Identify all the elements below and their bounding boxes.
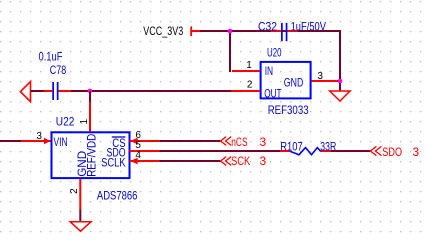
U22 pin 2 bottom	[69, 179, 81, 210]
wire SCK net	[159, 160, 220, 162]
svg-text:REF3033: REF3033	[268, 103, 309, 117]
svg-text:VIN: VIN	[54, 135, 68, 149]
svg-text:3: 3	[36, 131, 42, 142]
ground symbol right	[330, 91, 350, 101]
svg-text:C78: C78	[50, 63, 67, 77]
U20 pin 1 IN	[232, 60, 273, 78]
svg-text:4: 4	[135, 150, 141, 161]
svg-text:U22: U22	[56, 115, 75, 129]
svg-text:SCK: SCK	[231, 154, 250, 168]
svg-text:3: 3	[317, 71, 323, 82]
U20 pin 2 OUT	[230, 79, 282, 100]
svg-text:2: 2	[69, 188, 80, 194]
wire nCS net	[159, 140, 220, 142]
U22 pin 5 SDO	[107, 140, 160, 159]
U22 pin 4 SCLK	[101, 150, 159, 170]
wire VCC_3V3 top horizontal	[200, 30, 341, 32]
capacitor C32	[258, 20, 326, 41]
svg-text:VCC_3V3: VCC_3V3	[143, 24, 183, 38]
svg-text:3: 3	[260, 135, 267, 149]
port SDO	[370, 145, 419, 159]
svg-text:GND: GND	[284, 75, 304, 89]
svg-text:3: 3	[413, 145, 420, 159]
wire junction down to U22 pin 1	[89, 91, 91, 102]
port SCK	[221, 154, 267, 168]
U22 pin 6 CS	[112, 130, 160, 150]
IC U22 ADS7866 body	[52, 115, 138, 203]
U20 pin 3 GND	[284, 71, 339, 90]
wire SDO net to resistor	[159, 150, 280, 152]
junction GND node at x=340	[338, 79, 343, 84]
svg-text:SDO: SDO	[382, 145, 402, 159]
wire C78 to OUT net	[71, 90, 231, 92]
wire vertical right of C32 down to GND	[339, 31, 341, 91]
svg-text:SCLK: SCLK	[101, 156, 126, 170]
wire resistor to SDO port	[330, 150, 370, 152]
junction C78 node	[88, 89, 93, 94]
power port VCC_3V3	[143, 24, 200, 38]
capacitor C78	[39, 50, 71, 101]
svg-text:OUT: OUT	[264, 86, 282, 100]
svg-text:nCS: nCS	[231, 135, 247, 149]
svg-text:1: 1	[246, 60, 252, 71]
svg-text:0.1uF: 0.1uF	[39, 50, 63, 64]
ground symbol bottom	[70, 222, 91, 231]
op-amp U20 REF3033 body	[261, 45, 311, 116]
svg-text:1: 1	[79, 119, 90, 125]
svg-text:3: 3	[260, 154, 267, 168]
svg-text:U20: U20	[267, 45, 282, 59]
svg-text:IN: IN	[265, 64, 273, 78]
svg-text:1uF/50V: 1uF/50V	[291, 20, 326, 34]
svg-text:2: 2	[247, 79, 253, 90]
port nCS	[221, 135, 267, 149]
svg-text:REF/VDD: REF/VDD	[84, 134, 98, 177]
resistor R107	[280, 140, 337, 155]
U22 pin 1 top	[79, 102, 90, 132]
wire vertical to U20 pin 1	[229, 31, 231, 72]
wire arrow to C78	[31, 90, 45, 92]
junction VCC node at x=230	[228, 29, 233, 34]
svg-text:ADS7866: ADS7866	[97, 189, 138, 203]
svg-text:C32: C32	[258, 20, 277, 34]
wire pin2 to ground	[79, 210, 81, 222]
U22 pin 3 VIN	[0, 131, 68, 149]
svg-text:R107: R107	[280, 140, 303, 154]
port arrow left (C78 net)	[20, 82, 30, 102]
